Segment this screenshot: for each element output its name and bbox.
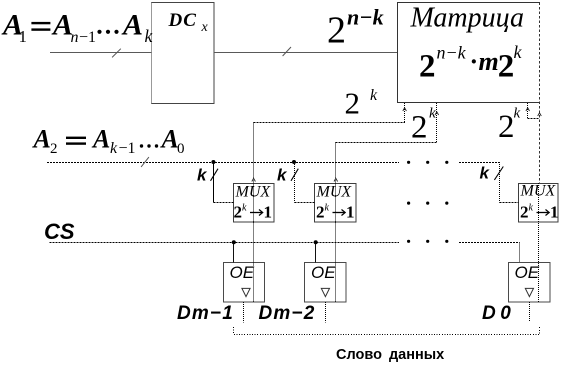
svg-text:n: n: [71, 29, 79, 46]
svg-text:Dm−2: Dm−2: [259, 303, 316, 324]
svg-text:n−k: n−k: [347, 4, 384, 29]
svg-text:k: k: [514, 42, 523, 62]
svg-text:Dm−1: Dm−1: [177, 303, 234, 324]
svg-text:1: 1: [19, 27, 28, 46]
svg-text:1: 1: [346, 202, 355, 221]
svg-text:D0: D0: [482, 303, 515, 324]
svg-text:k: k: [480, 164, 491, 183]
svg-text:k: k: [197, 166, 208, 185]
svg-text:A: A: [160, 124, 179, 153]
svg-text:2: 2: [498, 109, 515, 145]
svg-text:n−k: n−k: [437, 42, 467, 62]
svg-text:2: 2: [498, 49, 515, 85]
svg-text:A: A: [121, 8, 143, 41]
svg-text:2: 2: [327, 9, 346, 51]
svg-text:k: k: [429, 106, 436, 122]
svg-text:x: x: [201, 20, 209, 35]
svg-text:2: 2: [50, 141, 58, 157]
svg-text:CS: CS: [44, 219, 75, 244]
svg-text:0: 0: [177, 141, 185, 157]
svg-text:OE: OE: [230, 263, 255, 282]
svg-text:OE: OE: [311, 263, 336, 282]
svg-text:MUX: MUX: [520, 183, 557, 200]
svg-text:Матрица: Матрица: [410, 2, 525, 33]
svg-text:1: 1: [264, 202, 273, 221]
svg-text:MUX: MUX: [235, 183, 272, 200]
svg-text:k: k: [110, 140, 118, 157]
svg-text:m: m: [479, 47, 499, 76]
svg-text:DC: DC: [168, 10, 197, 31]
svg-text:MUX: MUX: [316, 183, 353, 200]
svg-text:·: ·: [470, 47, 479, 76]
svg-text:−1: −1: [79, 29, 96, 46]
svg-text:k: k: [145, 26, 154, 46]
svg-text:1: 1: [550, 202, 559, 221]
svg-text:2: 2: [411, 110, 428, 146]
svg-text:2: 2: [419, 49, 436, 85]
svg-text:−1: −1: [119, 140, 136, 157]
svg-text:OE: OE: [515, 263, 540, 282]
svg-text:A: A: [91, 124, 110, 153]
svg-text:k: k: [514, 106, 521, 122]
svg-text:2: 2: [345, 85, 361, 120]
svg-text:k: k: [370, 87, 378, 104]
svg-text:Слово данных: Слово данных: [336, 347, 444, 363]
svg-text:A: A: [32, 124, 51, 153]
svg-text:k: k: [277, 166, 288, 185]
